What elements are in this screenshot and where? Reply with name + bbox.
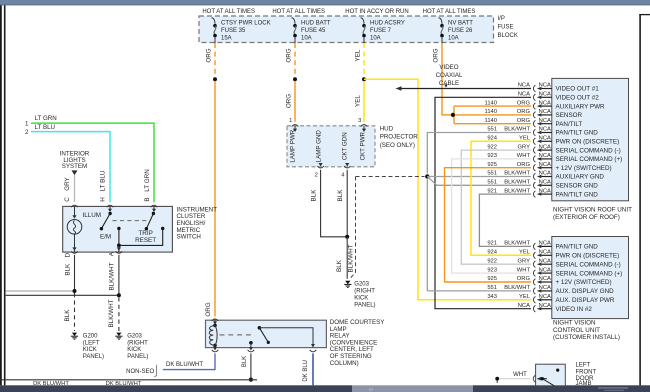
svg-text:AUX. DISPLAY GND: AUX. DISPLAY GND [556,288,615,295]
switch mechanical link dashes [113,220,150,222]
control unit pin AUX. DISPLAY GND [533,288,535,295]
svg-text:NCA: NCA [539,153,551,159]
wire video out #2 to video in #2 [435,97,531,308]
svg-text:HUD: HUD [380,126,394,133]
svg-text:HOT AT ALL TIMES: HOT AT ALL TIMES [202,9,255,15]
ground G203 right kick [116,333,121,336]
control unit pin PAN/TILT GND [533,243,535,250]
svg-text:SENSOR: SENSOR [556,112,583,119]
pin 1 bracket [292,125,299,127]
svg-text:BLK: BLK [310,189,317,202]
wire DK BLU from relay switch [312,353,314,385]
svg-text:KICK: KICK [354,295,368,301]
svg-text:PWR ON (DISCRETE): PWR ON (DISCRETE) [556,253,620,260]
svg-text:NCA: NCA [539,92,551,98]
svg-text:GRY: GRY [518,258,531,264]
relay switch common contact [249,341,253,345]
fuse F26 NV BATT 10A [439,18,442,24]
splice on ORG fuse 35 wire [213,77,217,81]
svg-text:551: 551 [487,127,497,133]
svg-text:KICK: KICK [83,347,97,353]
fuse F7 HUD ACSRY 10A [361,18,364,24]
svg-text:PWR ON (DISCRETE): PWR ON (DISCRETE) [556,139,620,146]
svg-text:ORG: ORG [517,109,531,115]
wire LT BLU to cluster pin H [31,132,110,203]
I/P fuse block box [199,16,494,43]
pin C entry arrow [74,206,76,217]
wire BLK pin D down [74,255,76,291]
wire BLK/WHT dashed SEO ground link [356,176,425,178]
relay coil entry arrow [214,320,216,323]
junction BLK/WHT pin A [117,293,121,297]
svg-text:ORG: ORG [205,302,212,316]
svg-text:DK BLU/WHT: DK BLU/WHT [106,381,142,387]
svg-text:FRONT: FRONT [576,369,597,375]
svg-text:BLK: BLK [64,309,71,322]
svg-text:NCA: NCA [539,162,551,168]
svg-text:VIDEO IN #2: VIDEO IN #2 [556,306,593,313]
svg-text:NON-SEO: NON-SEO [126,369,154,375]
svg-text:C: C [64,197,71,202]
svg-text:3: 3 [358,118,361,124]
svg-text:B: B [144,197,151,201]
svg-text:SERIAL COMMAND (+): SERIAL COMMAND (+) [556,270,623,277]
roof unit pin PWR ON (DISCRETE) [533,138,535,145]
relay output bracket [310,350,317,352]
svg-text:G203: G203 [127,334,142,340]
wire 551 BLK/WHT pan/tilt gnd roof [427,133,531,174]
wire 925 ORG 12V switched [445,168,532,282]
TRIP RESET switch [152,212,155,215]
relay mechanical link dashes [220,334,255,336]
wire BLK/WHT dashed SEO ground drop [350,177,356,279]
svg-text:BLK: BLK [337,189,344,202]
svg-text:GRY: GRY [64,176,71,190]
wire 551 BLK/WHT sensor gnd [427,177,531,186]
NON-SEO option bracket [154,365,156,377]
svg-text:(RIGHT: (RIGHT [127,340,148,346]
svg-text:PANEL): PANEL) [354,302,375,308]
svg-text:(RIGHT: (RIGHT [354,289,375,295]
pin A exit wire [118,245,120,252]
switch output contacts and bus [117,227,120,230]
svg-text:551: 551 [487,171,497,177]
pin C bracket [71,205,78,207]
junction SEO grounds [425,174,429,178]
svg-text:HUD BATT: HUD BATT [301,21,331,27]
svg-text:HOT AT ALL TIMES: HOT AT ALL TIMES [272,9,325,15]
svg-text:2: 2 [25,129,29,136]
svg-text:BLK: BLK [242,356,248,367]
tap line to left rail from BLK/WHT [6,294,119,296]
control unit pin SERIAL COMMAND (-) [533,261,535,268]
svg-text:LAMP PWR: LAMP PWR [290,129,297,162]
svg-text:(LEFT: (LEFT [83,340,100,346]
bottom page bar navy right [473,385,650,392]
svg-text:AUX. DISPLAY PWR: AUX. DISPLAY PWR [556,297,615,304]
svg-text:PROJECTOR: PROJECTOR [380,134,419,141]
junction YEL fuse 7 [362,77,366,81]
svg-text:923: 923 [487,153,497,159]
door jamb pin arrow [543,378,548,380]
wire 924 YEL pwr on [471,141,531,255]
roof unit pin AUXILIARY PWR [533,103,535,110]
svg-text:ORG: ORG [517,118,531,124]
svg-text:BLK D: BLK D [65,252,72,275]
svg-text:RESET: RESET [135,237,156,244]
wire DK BLU/WHT from relay coil [163,353,215,369]
svg-text:PAN/TILT GND: PAN/TILT GND [556,191,599,198]
svg-text:921: 921 [487,241,497,247]
svg-text:923: 923 [487,267,497,273]
lamp to pin D wire [74,234,76,252]
svg-text:10A: 10A [370,36,381,42]
svg-text:G200: G200 [83,334,98,340]
svg-text:NCA: NCA [539,241,551,247]
svg-text:LAMP GND: LAMP GND [316,130,323,163]
roof unit pin VIDEO OUT #1 [533,85,535,92]
fuse F35 CTSY PWR LOCK 15A [212,18,215,24]
splice on WHT wire [495,377,499,381]
svg-text:PAN/TILT: PAN/TILT [556,121,583,128]
control unit pin VIDEO IN #2 [533,305,535,312]
roof unit pin VIDEO OUT #2 [533,94,535,101]
wire 551 BLK/WHT auxiliary gnd [427,176,531,178]
ground G200 [72,333,77,336]
door jamb switch contacts [541,377,544,380]
svg-text:NIGHT VISION ROOF UNIT: NIGHT VISION ROOF UNIT [553,206,632,213]
svg-text:ILLUM: ILLUM [83,212,102,219]
svg-text:LT GRN: LT GRN [35,115,57,122]
roof unit pin AUXILIARY GND [533,173,535,180]
svg-text:NCA: NCA [539,118,551,124]
svg-text:BLK/WHT: BLK/WHT [504,180,530,186]
tap line to left rail from BLK [6,290,75,292]
svg-text:NCA: NCA [539,144,551,150]
svg-text:JAMB: JAMB [576,381,592,387]
svg-text:YEL: YEL [355,95,362,107]
pin H bracket [107,205,114,207]
svg-text:15A: 15A [221,36,232,42]
svg-text:925: 925 [487,162,497,168]
svg-text:SENSOR GND: SENSOR GND [556,183,599,190]
illumination lamp [67,220,82,235]
svg-text:NCA: NCA [539,100,551,106]
wire BLK/WHT pin A down [118,255,120,295]
pin 1 entry arrow [294,126,296,131]
wire ORG fuse 35 to dome relay [214,81,216,316]
splice on ORG fuse 45 wire [293,77,297,81]
bottom page bar gray segment [352,385,473,392]
svg-text:BLK/WHT: BLK/WHT [348,244,355,272]
roof unit pin SENSOR [533,112,535,119]
svg-text:+ 12V (SWITCHED): + 12V (SWITCHED) [556,165,612,172]
svg-text:BLK/WHT: BLK/WHT [504,171,530,177]
junction 1140 ORG [451,113,455,117]
svg-text:CKT PWR: CKT PWR [360,131,367,160]
night vision control unit box [552,237,629,319]
E/M switch [108,212,111,215]
svg-text:KICK: KICK [127,347,141,353]
instrument cluster english/metric switch box [63,206,173,252]
pin B entry arrow [153,206,155,210]
wire YEL fuse 7 dashed segment [363,43,365,77]
wire YEL fuse 7 to HUD projector CKT PWR [363,81,365,122]
control unit pin + 12V (SWITCHED) [533,279,535,286]
svg-text:343: 343 [487,294,497,300]
wire BLK/WHT dashed to G203 left [118,297,120,331]
junction BLK on rail [249,378,253,382]
svg-text:FUSE: FUSE [498,25,514,31]
pin A bracket [116,251,123,253]
roof unit pin PAN/TILT GND [533,129,535,136]
svg-text:NCA: NCA [539,276,551,282]
svg-text:551: 551 [487,180,497,186]
svg-text:YEL: YEL [519,136,531,142]
wire 343 YEL branch to control unit AUX DISPLAY PWR [364,79,531,299]
svg-text:ORG: ORG [206,48,213,62]
svg-text:NV BATT: NV BATT [448,21,473,27]
svg-text:AUXILIARY GND: AUXILIARY GND [556,174,605,181]
svg-text:(SEO ONLY): (SEO ONLY) [380,142,415,149]
relay switch blade [258,326,262,330]
roof unit pin PAN/TILT [533,120,535,127]
pin H entry arrow [109,206,111,210]
svg-text:(CUSTOMER INSTALL): (CUSTOMER INSTALL) [553,334,620,341]
leader arrow to video cable wire [444,84,448,87]
svg-text:NCA: NCA [539,171,551,177]
svg-text:NCA: NCA [539,136,551,142]
svg-text:NCA: NCA [539,258,551,264]
wire GRY to cluster pin C [74,175,76,202]
wire 922 GRY serial command minus [461,150,531,264]
svg-text:10A: 10A [448,36,459,42]
wire ORG fuse 45 to HUD projector [294,81,296,122]
svg-text:YEL: YEL [519,250,531,256]
svg-text:DK BLU/WHT: DK BLU/WHT [33,381,69,387]
svg-text:BLK/WHT: BLK/WHT [504,188,530,194]
relay coil exit [214,345,216,347]
ground G203 right kick panel (HUD) [345,281,350,284]
wire WHT to door jamb switch [497,378,531,380]
svg-text:PAN/TILT GND: PAN/TILT GND [556,244,599,251]
pin 2 exit [319,163,323,166]
pin 3 entry arrow [363,126,365,131]
night vision roof unit box [552,78,629,200]
wire BLK pin4 [346,170,348,237]
svg-text:CABLE: CABLE [439,80,459,87]
door jamb pin bracket [533,375,535,382]
wire LT GRN to cluster pin B [31,123,154,202]
svg-text:ORG: ORG [433,48,440,62]
svg-text:BLK: BLK [336,259,343,272]
pin B bracket [151,205,158,207]
wire 1140 ORG bus to roof unit pins [453,106,455,124]
bottom page bar navy left [0,385,352,392]
svg-text:H: H [100,197,107,202]
svg-text:E/M: E/M [100,233,111,240]
relay common exit [250,343,252,348]
svg-text:NIGHT VISION: NIGHT VISION [553,320,596,327]
svg-text:SERIAL COMMAND (+): SERIAL COMMAND (+) [556,156,623,163]
wire ORG fuse 45 dashed segment [294,43,296,77]
arrow from interior lights system [72,170,78,175]
svg-text:BLK/WHT: BLK/WHT [504,285,530,291]
fuse F45 HUD BATT 10A [292,18,295,24]
svg-text:ORG: ORG [517,162,531,168]
svg-text:NCA: NCA [518,303,530,309]
svg-text:924: 924 [487,136,497,142]
svg-text:NCA: NCA [539,250,551,256]
svg-text:10A: 10A [301,36,312,42]
svg-text:HOT IN ACCY OR RUN: HOT IN ACCY OR RUN [345,9,408,15]
wire 921 BLK/WHT pan/tilt gnd loop [479,194,531,246]
wire BLK relay common down [250,353,252,377]
HUD projector box [287,126,375,167]
relay coil pin bracket [212,319,219,321]
svg-text:FUSE 35: FUSE 35 [221,28,246,34]
svg-text:COAXIAL: COAXIAL [436,72,463,79]
svg-text:LT BLU: LT BLU [100,170,107,191]
junction BLK grounds [345,235,349,239]
svg-text:ORG: ORG [517,276,531,282]
svg-text:NCA: NCA [539,109,551,115]
dome courtesy lamp relay box [206,320,327,347]
wire 551 BLK/WHT gnd bus down to control unit [426,180,428,291]
svg-text:VIDEO: VIDEO [439,64,458,71]
svg-text:NCA: NCA [539,83,551,89]
svg-text:2: 2 [315,172,318,178]
svg-text:ORG: ORG [517,100,531,106]
pin D bracket [71,251,78,253]
right margin rail [639,14,641,385]
svg-text:CTSY PWR LOCK: CTSY PWR LOCK [221,21,271,27]
svg-text:1140: 1140 [485,100,497,106]
svg-text:FUSE 7: FUSE 7 [370,28,392,34]
roof unit pin PAN/TILT GND [533,191,535,198]
svg-text:NCA: NCA [518,83,530,89]
svg-text:ORG: ORG [286,94,293,108]
svg-text:BLK/WHT: BLK/WHT [504,127,530,133]
svg-text:G203: G203 [354,282,369,288]
control unit pin SERIAL COMMAND (+) [533,270,535,277]
relay coil [213,324,217,328]
svg-text:1140: 1140 [485,118,497,124]
svg-text:BLK/WHT: BLK/WHT [108,299,115,327]
svg-text:LEFT: LEFT [576,362,591,368]
svg-text:SERIAL COMMAND (-): SERIAL COMMAND (-) [556,261,621,268]
svg-text:4: 4 [341,172,345,178]
svg-text:+ 12V (SWITCHED): + 12V (SWITCHED) [556,279,612,286]
pin 4 exit [345,163,349,166]
roof unit pin SERIAL COMMAND (+) [533,156,535,163]
svg-text:551: 551 [487,285,497,291]
svg-text:SERIAL COMMAND (-): SERIAL COMMAND (-) [556,147,621,154]
left margin rail outer [0,5,2,385]
wire DK BLU/WHT rail [0,379,257,381]
svg-text:I/P: I/P [498,16,505,22]
svg-text:921: 921 [487,188,497,194]
svg-text:1: 1 [25,120,29,127]
svg-text:NCA: NCA [539,303,551,309]
svg-text:NCA: NCA [539,285,551,291]
wire BLK to G203 [346,237,348,279]
left front door jamb switch box [536,364,566,386]
svg-text:M: M [369,387,373,392]
svg-text:YEL: YEL [355,49,362,61]
top right neighbour border [639,14,650,16]
svg-text:LT GRN: LT GRN [144,169,151,192]
svg-text:PANEL): PANEL) [83,354,104,360]
svg-text:YEL: YEL [519,294,531,300]
svg-text:NCA: NCA [539,267,551,273]
svg-text:LT BLU: LT BLU [35,124,55,131]
control unit pin AUX. DISPLAY PWR [533,297,535,304]
svg-text:FUSE 45: FUSE 45 [301,28,326,34]
svg-text:HOT AT ALL TIMES: HOT AT ALL TIMES [423,9,476,15]
svg-text:PAN/TILT GND: PAN/TILT GND [556,130,599,137]
wire ORG fuse 35 dashed segment [214,43,216,77]
svg-text:WHT: WHT [517,267,531,273]
svg-text:WHT: WHT [517,153,531,159]
control unit pin PWR ON (DISCRETE) [533,252,535,259]
svg-text:CONTROL UNIT: CONTROL UNIT [553,327,600,334]
svg-text:NCA: NCA [539,180,551,186]
svg-text:NCA: NCA [539,127,551,133]
svg-text:SYSTEM: SYSTEM [62,163,87,170]
svg-text:BLOCK: BLOCK [498,33,518,39]
svg-text:924: 924 [487,250,497,256]
left margin rail inner [4,5,6,385]
svg-text:BLK/WHT A: BLK/WHT A [109,251,116,290]
svg-text:(EXTERIOR OF ROOF): (EXTERIOR OF ROOF) [553,214,620,221]
svg-text:ORG: ORG [286,48,293,62]
wire video out #1 to coaxial cable [399,88,531,90]
svg-text:FUSE 26: FUSE 26 [448,28,473,34]
svg-text:NCA: NCA [539,294,551,300]
svg-text:COLUMN): COLUMN) [330,360,359,367]
svg-text:SWITCH: SWITCH [177,234,201,241]
svg-text:WHT: WHT [513,372,527,378]
roof unit pin + 12V (SWITCHED) [533,164,535,171]
svg-text:BLK/WHT: BLK/WHT [504,241,530,247]
svg-text:CKT GDN: CKT GDN [342,132,349,160]
svg-text:DK BLU: DK BLU [303,360,309,382]
svg-text:922: 922 [487,258,497,264]
svg-text:1140: 1140 [485,109,497,115]
roof unit pin SERIAL COMMAND (-) [533,147,535,154]
junction BLK pin D [73,289,77,293]
svg-text:PANEL): PANEL) [127,354,148,360]
top page border bar [0,0,650,5]
wire BLK dashed to G200 [74,293,76,331]
svg-text:NCA: NCA [518,92,530,98]
svg-text:VIDEO OUT #1: VIDEO OUT #1 [556,86,600,93]
svg-text:DK BLU/WHT: DK BLU/WHT [166,362,203,368]
svg-text:VIDEO OUT #2: VIDEO OUT #2 [556,95,600,102]
svg-text:922: 922 [487,144,497,150]
wire 923 WHT serial command plus [452,159,531,273]
wire BLK pin2 [321,170,346,237]
roof unit pin SENSOR GND [533,182,535,189]
relay switch output wire [259,328,313,348]
svg-text:HUD ACSRY: HUD ACSRY [370,21,405,27]
pin 3 bracket [361,125,368,127]
wire ORG fuse 26 feed [442,43,454,115]
svg-text:AUXILIARY PWR: AUXILIARY PWR [556,103,606,110]
svg-text:GRY: GRY [518,144,531,150]
svg-text:1: 1 [289,118,292,124]
